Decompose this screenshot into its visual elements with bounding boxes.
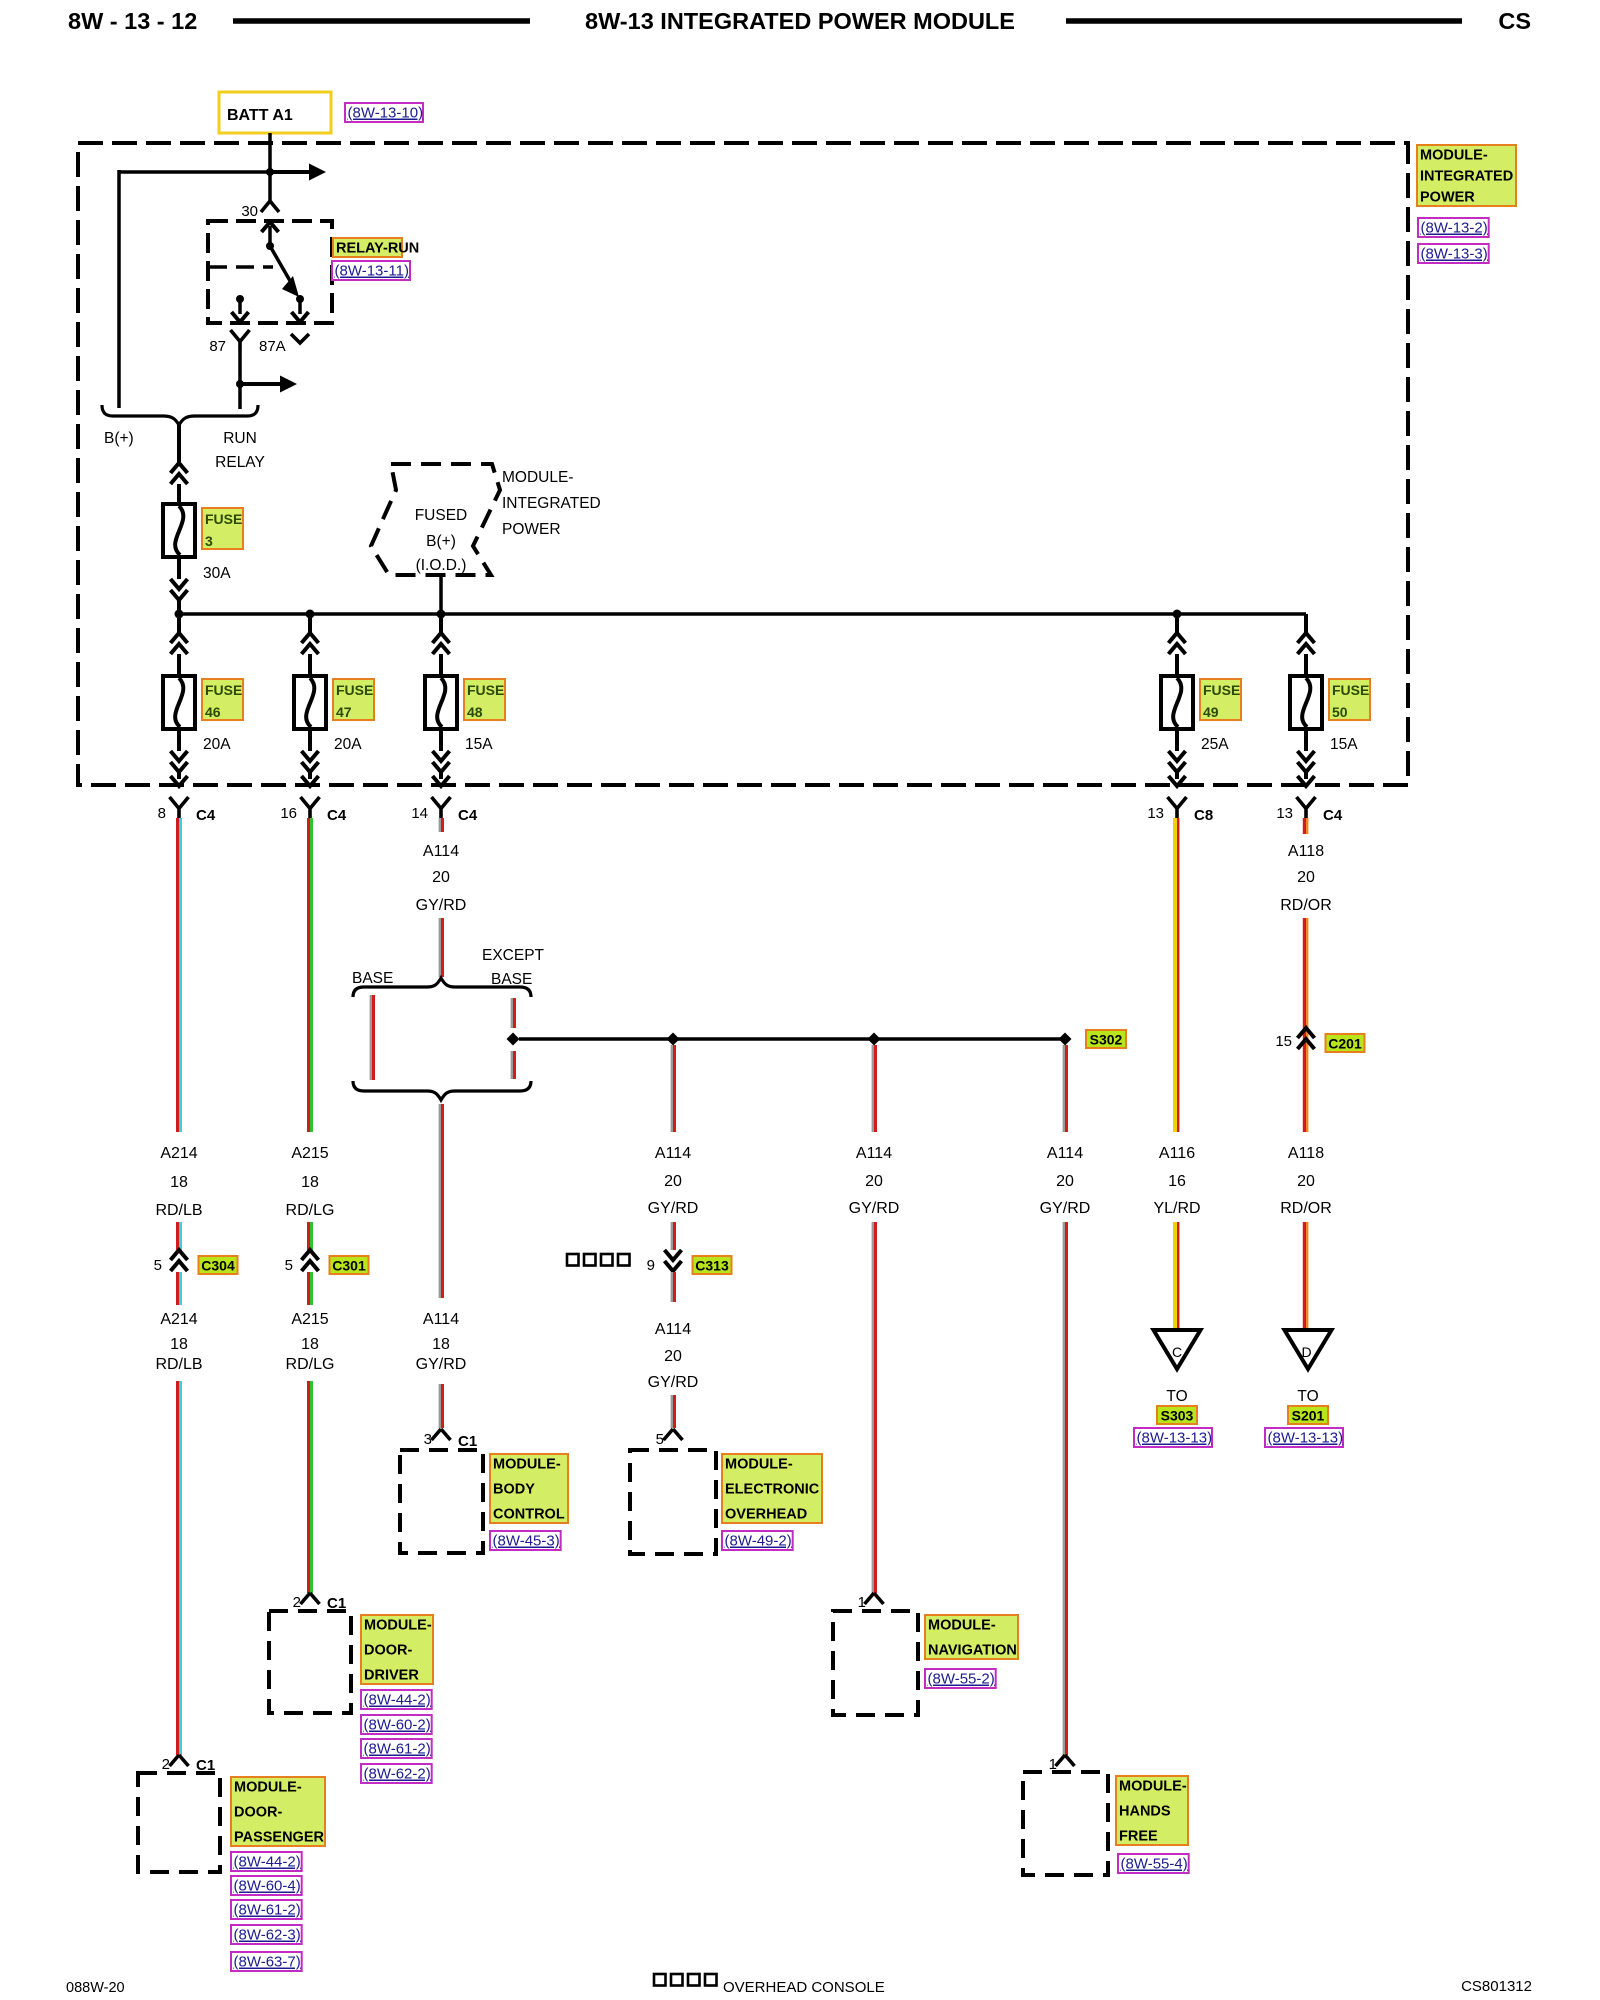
wire A114 to navigation module <box>872 1222 874 1593</box>
pin 13 C4 <box>1297 797 1316 818</box>
wire splice bus S302 <box>519 1037 1065 1041</box>
svg-text:CONTROL: CONTROL <box>493 1507 565 1523</box>
svg-text:13: 13 <box>1147 805 1164 822</box>
wire A116 to off-page C <box>1173 1222 1177 1330</box>
svg-text:ELECTRONIC: ELECTRONIC <box>725 1482 820 1498</box>
link 8W-55-2 <box>925 1669 996 1688</box>
svg-text:EXCEPT: EXCEPT <box>482 947 545 964</box>
wire A114 overhead segment <box>671 1222 673 1250</box>
svg-text:RELAY-RUN: RELAY-RUN <box>336 241 419 257</box>
svg-text:15A: 15A <box>1330 736 1358 753</box>
svg-text:14: 14 <box>411 805 428 822</box>
svg-text:FUSE: FUSE <box>1332 682 1369 698</box>
svg-text:16: 16 <box>1168 1173 1186 1190</box>
svg-text:C301: C301 <box>332 1258 366 1274</box>
svg-text:C8: C8 <box>1194 807 1213 824</box>
svg-text:FUSE: FUSE <box>205 682 242 698</box>
svg-text:MODULE-: MODULE- <box>1119 1779 1187 1795</box>
link 8W-49-2 <box>722 1531 793 1550</box>
svg-text:87: 87 <box>209 338 226 355</box>
label FUSE 48 <box>464 679 505 720</box>
svg-text:(8W-61-2): (8W-61-2) <box>234 1902 301 1919</box>
module-integrated power boundary box <box>78 143 1408 785</box>
link 8W-55-4 <box>1118 1854 1189 1873</box>
svg-text:(8W-55-2): (8W-55-2) <box>928 1671 995 1688</box>
link 8W-63-7 <box>231 1952 302 1971</box>
svg-text:RD/LG: RD/LG <box>286 1202 335 1219</box>
svg-text:8W-13 INTEGRATED POWER MODULE: 8W-13 INTEGRATED POWER MODULE <box>585 8 1015 34</box>
link 8W-44-2 driver <box>361 1690 432 1709</box>
link 8W-61-2 <box>231 1900 302 1919</box>
wire A214 18 RD/LB upper <box>176 818 179 1132</box>
wire A118 upper <box>1303 918 1306 1132</box>
svg-text:3: 3 <box>424 1431 432 1448</box>
svg-text:FUSED: FUSED <box>415 507 468 524</box>
brace merge below split <box>353 1081 531 1100</box>
brace B(+) RUN RELAY <box>102 405 258 425</box>
wire A114 to split <box>439 918 441 977</box>
svg-text:A114: A114 <box>655 1321 691 1338</box>
wire bus to fuse 46 <box>177 614 181 633</box>
svg-text:(8W-13-10): (8W-13-10) <box>348 105 424 122</box>
svg-text:MODULE-: MODULE- <box>234 1780 302 1796</box>
svg-text:A118: A118 <box>1288 1145 1324 1162</box>
legend overhead console squares <box>654 1974 666 1986</box>
svg-text:47: 47 <box>336 704 352 720</box>
module MODULE-HANDS FREE <box>1023 1772 1108 1875</box>
node battery feed junction <box>266 168 274 176</box>
svg-text:18: 18 <box>301 1336 319 1353</box>
svg-text:5: 5 <box>154 1257 162 1274</box>
svg-text:(8W-44-2): (8W-44-2) <box>234 1854 301 1871</box>
wire A215 18 RD/LG upper <box>307 818 310 1132</box>
svg-text:GY/RD: GY/RD <box>849 1200 900 1217</box>
svg-text:20: 20 <box>664 1348 682 1365</box>
relay label RELAY-RUN <box>333 238 402 257</box>
svg-text:FUSE: FUSE <box>205 511 242 527</box>
wire fuse 49 to connector <box>1175 729 1179 751</box>
fuse F48 <box>425 676 457 729</box>
svg-text:(8W-13-13): (8W-13-13) <box>1137 1430 1213 1447</box>
wire A214 below C304 <box>176 1272 179 1305</box>
wire battery feed vertical <box>268 133 272 200</box>
relay coil bar <box>209 265 273 269</box>
svg-text:48: 48 <box>467 704 483 720</box>
svg-text:9: 9 <box>647 1257 655 1274</box>
svg-text:A114: A114 <box>423 1311 459 1328</box>
svg-text:DOOR-: DOOR- <box>364 1643 413 1659</box>
wire A118 20 RD/OR top <box>1303 818 1306 834</box>
wire A114 20 GY/RD hands-free upper <box>1063 1045 1065 1132</box>
svg-text:POWER: POWER <box>502 521 561 538</box>
svg-text:(8W-45-3): (8W-45-3) <box>493 1533 560 1550</box>
relay common contact arrow <box>262 222 279 232</box>
module MODULE-DOOR-PASSENGER <box>138 1773 220 1872</box>
svg-text:(8W-49-2): (8W-49-2) <box>725 1533 792 1550</box>
svg-text:GY/RD: GY/RD <box>416 897 467 914</box>
node splice S302 tap <box>507 1033 520 1046</box>
svg-text:C4: C4 <box>1323 807 1343 824</box>
svg-text:A114: A114 <box>856 1145 892 1162</box>
fuse F46 <box>163 676 195 729</box>
module MODULE-DOOR-DRIVER <box>269 1611 351 1713</box>
svg-text:20A: 20A <box>334 736 362 753</box>
wire A114 below C313 <box>671 1272 673 1302</box>
svg-text:15A: 15A <box>465 736 493 753</box>
module MODULE-ELECTRONIC OVERHEAD <box>630 1450 716 1554</box>
overhead console marker squares <box>567 1254 579 1266</box>
svg-text:RD/OR: RD/OR <box>1280 897 1332 914</box>
svg-text:A114: A114 <box>423 843 459 860</box>
svg-text:BATT A1: BATT A1 <box>227 107 293 124</box>
svg-text:A215: A215 <box>291 1145 328 1162</box>
svg-text:B(+): B(+) <box>104 430 134 447</box>
link 8W-60-2 <box>361 1715 432 1734</box>
label FUSE 49 <box>1200 679 1241 720</box>
svg-text:30: 30 <box>241 203 258 220</box>
wire A215 to driver door module <box>307 1381 310 1593</box>
svg-text:RELAY: RELAY <box>215 454 265 471</box>
relay contact 87 leg <box>236 295 244 303</box>
fuse F47 <box>294 676 326 729</box>
label FUSE 47 <box>333 679 374 720</box>
svg-text:CS: CS <box>1498 8 1531 34</box>
wire A114 to body control module <box>439 1384 441 1428</box>
link 8W-13-13 right <box>1265 1428 1343 1447</box>
svg-text:PASSENGER: PASSENGER <box>234 1830 325 1846</box>
svg-text:GY/RD: GY/RD <box>1040 1200 1091 1217</box>
label FUSE 3 <box>202 508 243 549</box>
svg-text:BODY: BODY <box>493 1482 535 1498</box>
svg-text:FUSE: FUSE <box>1203 682 1240 698</box>
svg-text:C304: C304 <box>201 1258 235 1274</box>
svg-text:87A: 87A <box>259 338 286 355</box>
label MODULE-INTEGRATED POWER <box>1417 145 1516 206</box>
wire fuse 48 to connector <box>439 729 443 751</box>
svg-text:B(+): B(+) <box>426 533 456 550</box>
arrow feed continuation <box>270 170 312 174</box>
svg-text:18: 18 <box>432 1336 450 1353</box>
svg-text:20: 20 <box>1056 1173 1074 1190</box>
fuse F3 <box>163 504 195 557</box>
svg-text:MODULE-: MODULE- <box>725 1457 793 1473</box>
header rule left <box>233 18 530 24</box>
wire from pin 87 <box>238 351 242 384</box>
svg-text:(8W-60-4): (8W-60-4) <box>234 1878 301 1895</box>
svg-text:MODULE-: MODULE- <box>364 1618 432 1634</box>
battery feed BATT A1 <box>219 92 331 133</box>
svg-text:YL/RD: YL/RD <box>1153 1200 1200 1217</box>
wire A114 20 GY/RD top <box>439 818 441 832</box>
bus wire B(+) distribution <box>179 612 1306 616</box>
svg-text:DRIVER: DRIVER <box>364 1668 419 1684</box>
label FUSE 50 <box>1329 679 1370 720</box>
svg-text:BASE: BASE <box>352 970 393 987</box>
svg-text:25A: 25A <box>1201 736 1229 753</box>
svg-text:D: D <box>1301 1344 1311 1360</box>
svg-text:13: 13 <box>1276 805 1293 822</box>
svg-text:MODULE-: MODULE- <box>1420 148 1488 164</box>
svg-text:C201: C201 <box>1328 1036 1362 1052</box>
svg-text:16: 16 <box>280 805 297 822</box>
svg-text:C4: C4 <box>327 807 347 824</box>
svg-text:MODULE-: MODULE- <box>502 469 573 486</box>
svg-text:CS801312: CS801312 <box>1461 1978 1532 1995</box>
svg-text:RD/OR: RD/OR <box>1280 1200 1332 1217</box>
wire fuse 46 to connector <box>177 729 181 751</box>
wire A114 to hands free module <box>1063 1222 1065 1755</box>
wire I.O.D. to bus <box>439 575 443 616</box>
svg-text:18: 18 <box>170 1174 188 1191</box>
splice S302 <box>1059 1033 1072 1046</box>
arrow run feed continuation <box>240 382 283 386</box>
svg-text:C4: C4 <box>196 807 216 824</box>
svg-text:POWER: POWER <box>1420 190 1475 206</box>
svg-text:S201: S201 <box>1292 1408 1325 1424</box>
relay RELAY-RUN box <box>208 221 332 323</box>
svg-text:FUSE: FUSE <box>336 682 373 698</box>
svg-text:(8W-13-3): (8W-13-3) <box>1421 246 1488 263</box>
svg-text:(8W-61-2): (8W-61-2) <box>364 1741 431 1758</box>
node junction navigation branch <box>868 1033 881 1046</box>
link 8W-13-13 left <box>1134 1428 1212 1447</box>
link 8W-13-10 <box>345 103 423 122</box>
fuse F49 <box>1161 676 1193 729</box>
wire fuse 47 to connector <box>308 729 312 751</box>
svg-text:A116: A116 <box>1159 1145 1195 1162</box>
wire fuse 50 to connector <box>1304 729 1308 751</box>
svg-text:088W-20: 088W-20 <box>66 1980 125 1996</box>
svg-text:C313: C313 <box>695 1258 729 1274</box>
svg-text:20: 20 <box>1297 869 1315 886</box>
wire to fuse 3 <box>177 425 181 463</box>
svg-text:50: 50 <box>1332 704 1348 720</box>
node junction overhead branch <box>667 1033 680 1046</box>
svg-text:INTEGRATED: INTEGRATED <box>502 495 601 512</box>
module MODULE-BODY CONTROL <box>400 1450 483 1553</box>
relay pin 30 <box>261 201 279 212</box>
pin 14 C4 <box>432 797 451 818</box>
svg-text:NAVIGATION: NAVIGATION <box>928 1643 1017 1659</box>
svg-text:(8W-13-13): (8W-13-13) <box>1268 1430 1344 1447</box>
wire A116 16 YL/RD <box>1173 818 1177 1132</box>
svg-text:C4: C4 <box>458 807 478 824</box>
wire A215 below C301 <box>307 1272 310 1305</box>
svg-text:RD/LG: RD/LG <box>286 1356 335 1373</box>
svg-text:(8W-44-2): (8W-44-2) <box>364 1692 431 1709</box>
svg-text:A118: A118 <box>1288 843 1324 860</box>
svg-text:GY/RD: GY/RD <box>648 1374 699 1391</box>
svg-text:20: 20 <box>1297 1173 1315 1190</box>
svg-text:18: 18 <box>170 1336 188 1353</box>
svg-text:15: 15 <box>1275 1033 1292 1050</box>
svg-text:DOOR-: DOOR- <box>234 1805 283 1821</box>
svg-text:18: 18 <box>301 1174 319 1191</box>
pin 8 C4 <box>170 797 189 818</box>
pin 13 C8 <box>1168 797 1187 818</box>
svg-text:C: C <box>1172 1344 1182 1360</box>
wire A215 segment <box>307 1222 310 1250</box>
svg-text:GY/RD: GY/RD <box>648 1200 699 1217</box>
svg-text:A215: A215 <box>291 1311 328 1328</box>
svg-text:A114: A114 <box>655 1145 691 1162</box>
svg-text:20: 20 <box>865 1173 883 1190</box>
link 8W-60-4 <box>231 1876 302 1895</box>
pin 16 C4 <box>301 797 320 818</box>
wire bus to fuse 50 <box>1304 614 1308 633</box>
link 8W-44-2 <box>231 1852 302 1871</box>
svg-text:46: 46 <box>205 704 221 720</box>
node bus junction F46 <box>175 610 184 619</box>
svg-text:20A: 20A <box>203 736 231 753</box>
wire bus to fuse 48 <box>439 614 443 633</box>
svg-text:INTEGRATED: INTEGRATED <box>1420 169 1513 185</box>
svg-text:A114: A114 <box>1047 1145 1083 1162</box>
svg-text:FREE: FREE <box>1119 1829 1158 1845</box>
off-page connector C <box>1154 1330 1201 1369</box>
off-page connector D <box>1285 1330 1332 1369</box>
svg-text:(8W-63-7): (8W-63-7) <box>234 1954 301 1971</box>
wire A114 18 below merge <box>439 1104 441 1298</box>
link 8W-62-2 <box>361 1764 432 1783</box>
fuse F50 <box>1290 676 1322 729</box>
svg-text:OVERHEAD: OVERHEAD <box>725 1507 807 1523</box>
svg-text:3: 3 <box>205 533 213 549</box>
wire A114 20 GY/RD overhead upper <box>671 1045 673 1132</box>
svg-text:TO: TO <box>1166 1388 1187 1405</box>
svg-text:OVERHEAD CONSOLE: OVERHEAD CONSOLE <box>723 1979 885 1996</box>
header rule right <box>1066 18 1462 24</box>
svg-text:RD/LB: RD/LB <box>155 1202 202 1219</box>
relay contact 87A leg <box>296 295 304 303</box>
wire A214 segment <box>176 1222 179 1250</box>
label FUSE 46 <box>202 679 243 720</box>
svg-text:FUSE: FUSE <box>467 682 504 698</box>
svg-text:(8W-13-2): (8W-13-2) <box>1421 220 1488 237</box>
brace BASE / EXCEPT BASE split <box>353 978 531 997</box>
node bus junction F47 <box>306 610 315 619</box>
svg-text:A214: A214 <box>160 1145 197 1162</box>
svg-text:RD/LB: RD/LB <box>155 1356 202 1373</box>
relay switch blade <box>270 246 293 286</box>
svg-text:(8W-62-3): (8W-62-3) <box>234 1927 301 1944</box>
link 8W-13-11 <box>332 261 410 280</box>
svg-text:(8W-13-11): (8W-13-11) <box>335 263 409 280</box>
svg-text:30A: 30A <box>203 565 231 582</box>
svg-text:BASE: BASE <box>491 971 532 988</box>
wire branch to B(+) <box>119 170 270 174</box>
svg-text:C1: C1 <box>458 1433 477 1450</box>
source FUSED B(+) I.O.D. <box>371 464 500 575</box>
svg-text:(8W-60-2): (8W-60-2) <box>364 1717 431 1734</box>
link 8W-13-2 <box>1418 218 1489 237</box>
svg-text:20: 20 <box>432 869 450 886</box>
module MODULE-NAVIGATION <box>833 1611 918 1715</box>
svg-text:MODULE-: MODULE- <box>493 1457 561 1473</box>
link 8W-45-3 <box>490 1531 561 1550</box>
svg-text:20: 20 <box>664 1173 682 1190</box>
svg-text:RUN: RUN <box>223 430 257 447</box>
wire A114 20 GY/RD navigation upper <box>872 1045 874 1132</box>
link 8W-13-3 <box>1418 244 1489 263</box>
svg-text:5: 5 <box>285 1257 293 1274</box>
wire bus to fuse 47 <box>308 614 312 633</box>
svg-text:HANDS: HANDS <box>1119 1804 1171 1820</box>
svg-text:5: 5 <box>656 1431 664 1448</box>
wire A118 to off-page D <box>1303 1222 1306 1330</box>
svg-text:GY/RD: GY/RD <box>416 1356 467 1373</box>
svg-text:S302: S302 <box>1090 1032 1123 1048</box>
svg-text:S303: S303 <box>1161 1408 1194 1424</box>
wire fuse 3 to bus <box>177 557 181 579</box>
link 8W-61-2 driver <box>361 1739 432 1758</box>
svg-text:(I.O.D.): (I.O.D.) <box>416 557 467 574</box>
svg-text:MODULE-: MODULE- <box>928 1618 996 1634</box>
svg-text:49: 49 <box>1203 704 1219 720</box>
wire EXCEPT BASE branch <box>511 998 513 1028</box>
node bus junction F48 <box>437 610 446 619</box>
wire bus to fuse 49 <box>1175 614 1179 633</box>
svg-text:TO: TO <box>1297 1388 1318 1405</box>
svg-text:(8W-55-4): (8W-55-4) <box>1121 1856 1188 1873</box>
svg-text:8W - 13 - 12: 8W - 13 - 12 <box>68 8 197 34</box>
node bus junction F49 <box>1173 610 1182 619</box>
link 8W-62-3 <box>231 1925 302 1944</box>
wire BASE branch <box>370 995 372 1080</box>
svg-text:(8W-62-2): (8W-62-2) <box>364 1766 431 1783</box>
wire A214 to passenger door module <box>176 1381 179 1755</box>
svg-text:A214: A214 <box>160 1311 197 1328</box>
wire A114 to overhead module <box>671 1395 673 1428</box>
svg-text:8: 8 <box>158 805 166 822</box>
